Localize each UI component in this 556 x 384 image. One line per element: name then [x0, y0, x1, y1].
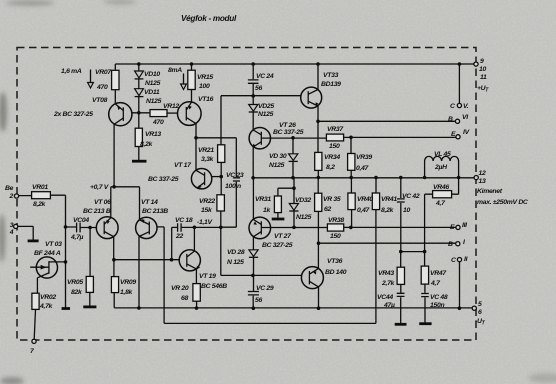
svg-text:VR05: VR05 [67, 279, 83, 286]
svg-text:BC 337-25: BC 337-25 [273, 129, 304, 136]
svg-text:9: 9 [480, 58, 484, 65]
terminal B I [456, 242, 460, 246]
wire VT26 emitter column [252, 147, 254, 178]
wire B/VI row [318, 120, 456, 122]
resistor VR46 [433, 191, 452, 198]
terminal B VI [455, 119, 459, 123]
svg-text:100: 100 [199, 83, 210, 90]
wire VR47 node column [424, 194, 426, 251]
capacitor VC23 [233, 178, 240, 181]
svg-text:13: 13 [479, 178, 486, 185]
terminal C II [457, 258, 461, 262]
svg-text:3,3k: 3,3k [201, 156, 215, 163]
resistor VR21 [218, 145, 225, 163]
diode VD28 [249, 250, 258, 257]
svg-text:Végfok - modul: Végfok - modul [181, 14, 237, 23]
svg-text:VT08: VT08 [92, 97, 108, 104]
wire VC42 column [400, 178, 402, 252]
resistor VR22 [217, 195, 225, 211]
svg-text:VR46: VR46 [433, 184, 449, 191]
wire VT26 base / VR37 row to E IV [261, 136, 456, 139]
svg-text:VR21: VR21 [198, 147, 214, 154]
svg-text:2: 2 [9, 193, 14, 200]
wire VT14 top [139, 187, 141, 220]
svg-text:Be: Be [5, 185, 14, 192]
svg-text:150: 150 [329, 143, 340, 150]
terminal E III [456, 225, 460, 229]
wire VR21 column [220, 96, 222, 177]
wire C/V terminal column [458, 64, 460, 103]
svg-text:N125: N125 [145, 80, 161, 87]
wire VD28 to VC29 node [252, 258, 254, 309]
svg-text:VD25: VD25 [258, 103, 274, 110]
svg-text:150: 150 [330, 233, 341, 240]
transistor VT16 [178, 102, 202, 126]
svg-text:0,47: 0,47 [356, 165, 370, 172]
capacitor VC44 [397, 293, 405, 296]
svg-text:B: B [448, 116, 453, 123]
wire +0,7V node [111, 124, 140, 217]
svg-text:4,7k: 4,7k [39, 303, 54, 310]
svg-text:VD10: VD10 [144, 71, 160, 78]
svg-text:V.: V. [463, 103, 469, 110]
wire VD32 column [293, 178, 295, 228]
svg-text:II: II [464, 256, 468, 263]
terminal E IV [456, 135, 460, 139]
svg-text:4,7: 4,7 [430, 280, 441, 287]
svg-text:VT36: VT36 [327, 258, 343, 265]
wire VR31 branch [278, 188, 294, 218]
svg-text:VC 24: VC 24 [256, 73, 274, 80]
svg-text:VC04: VC04 [73, 217, 89, 224]
svg-text:2x BC 327-25: 2x BC 327-25 [53, 111, 93, 118]
wire VR41 feedback loop to VT14 base [157, 178, 376, 324]
terminal -UT [472, 306, 476, 310]
transistor VT06 [96, 217, 118, 239]
wire link VC42-VR47 nodes [401, 251, 425, 253]
svg-text:4: 4 [9, 229, 14, 236]
svg-text:N125: N125 [296, 214, 312, 221]
svg-text:VT 17: VT 17 [174, 162, 192, 169]
ground below VC44 [395, 323, 407, 326]
terminal pin3/4 [14, 224, 18, 228]
wire C/II terminal column [459, 262, 461, 309]
svg-text:VR02: VR02 [40, 294, 56, 301]
svg-text:VR34: VR34 [324, 154, 340, 161]
svg-text:BC 337-25: BC 337-25 [148, 176, 179, 183]
svg-text:1,6 mA: 1,6 mA [61, 68, 82, 75]
resistor VR07 [112, 70, 119, 89]
wire VT36 base row [253, 274, 302, 276]
svg-text:VC 29: VC 29 [256, 285, 274, 292]
svg-text:4,7: 4,7 [435, 200, 446, 207]
wire VT33 collector [317, 64, 319, 89]
wire VT03 drain branch [49, 261, 66, 263]
svg-text:VR15: VR15 [197, 74, 213, 81]
svg-text:VT 14: VT 14 [141, 199, 158, 206]
svg-text:VD 28: VD 28 [227, 249, 245, 256]
transistor VT26 [249, 128, 270, 149]
svg-text:8,2k: 8,2k [381, 207, 395, 214]
wire VR43/VC44 leg [400, 252, 402, 324]
wire VR09 column [113, 260, 115, 308]
wire VT17 base stub [211, 176, 221, 178]
diode VD11 [135, 89, 144, 96]
wire VR40 column [350, 178, 352, 228]
svg-text:VR43: VR43 [378, 270, 394, 277]
wire VT36 emitter [318, 287, 320, 308]
svg-text:VR38: VR38 [328, 217, 344, 224]
svg-text:22: 22 [175, 233, 183, 240]
wire VT08 base node [132, 112, 150, 114]
wire VR22 column to -1,1V node [220, 177, 222, 228]
svg-text:5: 5 [478, 301, 482, 308]
wire VR35 column down to VT36 collector [317, 178, 319, 269]
svg-text:III: III [462, 222, 467, 229]
svg-text:VD11: VD11 [144, 89, 160, 96]
resistor VR15 [188, 70, 195, 89]
wire VT17 collector [195, 138, 197, 170]
resistor VR40 [348, 193, 355, 210]
svg-text:470: 470 [152, 119, 164, 126]
wire VT03 gate stub [30, 266, 49, 268]
svg-text:VR01: VR01 [32, 184, 48, 191]
resistor VR38 [327, 224, 343, 231]
svg-text:VR12: VR12 [163, 103, 179, 110]
wire VR15 column [191, 64, 193, 102]
svg-text:56: 56 [255, 297, 262, 304]
svg-text:VR31: VR31 [255, 196, 271, 203]
svg-text:BC 327-25: BC 327-25 [262, 242, 293, 249]
svg-text:VT16: VT16 [198, 96, 214, 103]
svg-text:2,7k: 2,7k [381, 280, 396, 287]
resistor VR20 [193, 284, 200, 302]
svg-text:VR41: VR41 [381, 196, 397, 203]
capacitor VC48 [421, 294, 429, 297]
terminal C V [457, 103, 461, 107]
svg-text:N 125: N 125 [227, 259, 244, 266]
wire VT19 collector [193, 227, 195, 251]
capacitor VC29 [248, 292, 259, 295]
svg-text:BC 213 B: BC 213 B [83, 208, 111, 215]
wire VT19 emitter / VR20 [195, 269, 197, 308]
wire VL45/VR46 loop [425, 161, 459, 194]
svg-text:56: 56 [255, 85, 262, 92]
resistor VR09 [111, 277, 118, 293]
svg-text:VR47: VR47 [430, 270, 447, 277]
svg-text:VC44: VC44 [377, 294, 393, 301]
resistor VR41 [372, 193, 379, 210]
ground below VR13 [132, 160, 147, 163]
svg-text:8,2k: 8,2k [33, 201, 47, 208]
terminal output 12/13 [474, 176, 478, 180]
svg-text:0,47: 0,47 [357, 207, 371, 214]
svg-text:VR 35: VR 35 [323, 196, 341, 203]
svg-text:Kimenet: Kimenet [477, 188, 503, 195]
svg-text:8,2: 8,2 [326, 164, 335, 171]
svg-text:68: 68 [181, 295, 188, 302]
wire VT16 emitter node to VC23 corner [196, 123, 236, 177]
svg-text:BC 546B: BC 546B [201, 283, 227, 290]
svg-text:BD139: BD139 [321, 81, 341, 88]
svg-text:10: 10 [403, 207, 410, 214]
svg-text:B: B [448, 241, 453, 248]
wire -UT rail [114, 307, 472, 309]
wire VT06 base / VC04 node [66, 226, 97, 229]
transistor VT14 [136, 217, 157, 238]
svg-text:VT33: VT33 [323, 72, 339, 79]
terminal pin2 [14, 194, 18, 198]
wire VC18 left leg [172, 227, 178, 259]
wire VR07 column [114, 64, 116, 104]
wire VD30 column [292, 138, 294, 178]
ground below VR31 [272, 218, 285, 221]
diode VD30 [289, 154, 298, 161]
svg-text:VT 27: VT 27 [274, 233, 292, 240]
svg-text:VT 06: VT 06 [94, 199, 111, 206]
wire VT27 emitter to VD28 [252, 237, 254, 250]
terminal +UT [474, 62, 478, 66]
svg-text:150n: 150n [430, 302, 444, 309]
wire VR34 column [317, 121, 319, 177]
resistor VR12 [150, 110, 167, 117]
svg-text:VT 19: VT 19 [199, 273, 216, 280]
wire top +UT rail [115, 63, 474, 65]
wire VT33 emitter [317, 106, 319, 121]
wire VR05 column to ground [89, 228, 91, 307]
ground below pin3/4 [28, 239, 39, 242]
capacitor VC42 [397, 199, 405, 202]
svg-text:VR37: VR37 [327, 126, 344, 133]
resistor VR34 [315, 152, 322, 170]
svg-text:VC 48: VC 48 [430, 294, 448, 301]
module dashed border [17, 48, 476, 341]
svg-text:VL 45: VL 45 [434, 151, 451, 158]
svg-text:3: 3 [10, 222, 14, 229]
wire VC24/VD25 column [252, 64, 254, 130]
wire pin3/4 to ground [18, 226, 33, 240]
svg-text:C: C [450, 103, 455, 110]
wire VD10/VD11 bias column [138, 64, 140, 113]
wire VR47/VC48 leg [424, 252, 426, 323]
svg-text:82k: 82k [71, 289, 83, 296]
svg-text:N125: N125 [269, 162, 285, 169]
svg-text:62: 62 [324, 206, 331, 213]
svg-text:2µH: 2µH [434, 164, 448, 171]
transistor VT08 [109, 103, 132, 126]
wire VC18 right to -1,1V [181, 226, 221, 228]
resistor VR37 [326, 134, 343, 141]
svg-text:VC 42: VC 42 [402, 193, 420, 200]
svg-text:11: 11 [480, 74, 487, 81]
svg-text:max. ±250mV DC: max. ±250mV DC [477, 199, 528, 206]
junction dots [137, 62, 141, 66]
svg-text:100 n: 100 n [225, 183, 241, 190]
svg-text:VR39: VR39 [356, 154, 372, 161]
svg-text:4,7µ: 4,7µ [70, 234, 84, 241]
node y96 horizontal to VT33 base [221, 95, 301, 97]
transistor VT19 [179, 250, 200, 271]
transistor VT33 [301, 87, 322, 108]
diode VD25 [249, 105, 258, 112]
terminal pin7 [32, 339, 36, 343]
current arrow 1,6mA [90, 70, 92, 84]
resistor VR13 [135, 128, 142, 146]
svg-text:VC 18: VC 18 [175, 217, 193, 224]
ground below VR05 [83, 305, 96, 308]
svg-text:BF 244 A: BF 244 A [34, 250, 61, 257]
svg-text:VR09: VR09 [120, 279, 136, 286]
current arrow 8mA [183, 74, 185, 85]
resistor VR47 [421, 266, 428, 284]
svg-text:VR 20: VR 20 [171, 285, 189, 292]
wire input column pin2/VR01 [19, 195, 66, 307]
resistor VR01 [32, 192, 51, 199]
svg-text:6: 6 [478, 309, 482, 316]
ground below VC48 [419, 322, 431, 325]
svg-text:1,8k: 1,8k [120, 289, 134, 296]
capacitor VC04 [77, 223, 81, 233]
svg-text:VR40: VR40 [357, 196, 373, 203]
svg-text:+0,7 V: +0,7 V [90, 184, 110, 191]
resistor VR43 [397, 267, 404, 284]
diode VD32 [289, 204, 298, 211]
wire VR39 column [350, 137, 352, 177]
svg-text:10: 10 [479, 66, 486, 73]
svg-text:N125: N125 [146, 98, 162, 105]
svg-text:12: 12 [479, 170, 486, 177]
resistor VR31 [274, 196, 281, 213]
transistor VT17 [191, 169, 211, 189]
wire VT27 collector top [252, 178, 254, 220]
wire VR13 column to ground [138, 113, 140, 160]
svg-text:-1,1V: -1,1V [197, 219, 214, 226]
transistor VT03 jfet [36, 257, 57, 278]
wire B/I row [319, 242, 456, 244]
svg-text:VD 30: VD 30 [269, 153, 287, 160]
svg-text:VR13: VR13 [145, 131, 161, 138]
resistor VR39 [348, 154, 355, 171]
transistor VT27 [249, 217, 271, 239]
wire -1,1V node down to VD28 node [221, 227, 253, 275]
transistor VT36 [301, 267, 323, 289]
svg-text:BD 140: BD 140 [325, 269, 347, 276]
wire VT14 bottom to -UT rail [138, 236, 140, 308]
svg-text:VD32: VD32 [295, 197, 311, 204]
svg-text:BC 213B: BC 213B [142, 208, 168, 215]
svg-text:N125: N125 [258, 111, 274, 118]
wire VC23 bottom leg [221, 182, 237, 228]
wire output rail [253, 177, 474, 179]
svg-text:VC 23: VC 23 [226, 172, 244, 179]
ground below input column [62, 307, 70, 310]
svg-text:VR22: VR22 [199, 198, 215, 205]
svg-text:15k: 15k [201, 207, 213, 214]
resistor VR05 [86, 276, 93, 292]
svg-text:VT 26: VT 26 [279, 122, 296, 129]
svg-text:VT 03: VT 03 [45, 241, 62, 248]
svg-text:8mA: 8mA [168, 67, 182, 74]
svg-text:C: C [451, 257, 456, 264]
inductor VL45 [425, 156, 459, 161]
resistor VR35 [315, 193, 322, 211]
diode VD10 [135, 71, 144, 78]
svg-text:VI: VI [462, 114, 468, 121]
resistor VR02 [32, 293, 39, 309]
svg-text:VR07: VR07 [95, 69, 112, 76]
svg-text:470: 470 [96, 84, 108, 91]
capacitor VC18 [178, 223, 182, 231]
wire VT19 base row [114, 259, 179, 261]
wire VT03 source to VR02 [34, 278, 37, 340]
svg-text:47µ: 47µ [383, 302, 395, 309]
wire E/III row with VT27 base [261, 226, 456, 228]
wire VT06 bottom [113, 237, 115, 260]
svg-text:8,2k: 8,2k [140, 141, 154, 148]
wire VR12 to VT16 base [167, 112, 177, 114]
capacitor VC24 [248, 80, 259, 83]
